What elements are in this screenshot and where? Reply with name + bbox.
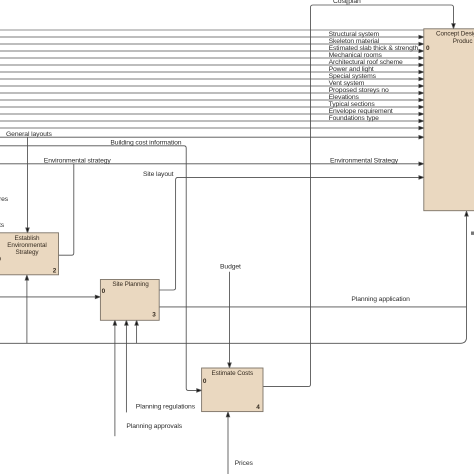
wire Site layout (output of Site Planning, into Concept Design) (159, 177, 419, 290)
svg-text:Cost plan: Cost plan (333, 0, 361, 5)
box: Site Planning (100, 280, 159, 321)
wire Environmental strategy (0, 163, 419, 165)
wire branch into Establish Environmental Strategy bottom (26, 279, 28, 343)
svg-text:2: 2 (53, 268, 57, 275)
svg-text:Power and light: Power and light (329, 66, 374, 73)
svg-text:Building cost information: Building cost information (110, 140, 181, 147)
wire General layouts (0, 136, 419, 138)
wire input line 2 y=37.0 (0, 36, 419, 38)
box: Concept Design Production (clipped at right edge) (424, 29, 474, 211)
wire Building cost information (into Estimate Costs left) (0, 146, 197, 391)
svg-text:Concept Desig: Concept Desig (436, 31, 474, 38)
wire input line 1 y=30.0 (0, 29, 424, 31)
wire Planning regulations (into Site Planning bottom) (125, 324, 127, 413)
svg-text:Elevations: Elevations (329, 94, 360, 101)
svg-text:Budget: Budget (220, 264, 241, 271)
wire input line 12 y=107.0 (0, 106, 419, 108)
label: cut fragment at right edge (471, 232, 474, 235)
svg-text:Estimate Costs: Estimate Costs (212, 370, 254, 377)
svg-text:res: res (0, 196, 9, 203)
svg-text:Architectural roof scheme: Architectural roof scheme (329, 59, 403, 66)
wire planning loop: vertical into Concept Design bottom, long horizontal return (0, 216, 467, 344)
wire Prices (into Estimate Costs bottom) (227, 415, 229, 474)
svg-text:0: 0 (102, 288, 106, 295)
wire Budget (into Estimate Costs top) (229, 272, 231, 364)
svg-text:Environmental Strategy: Environmental Strategy (330, 158, 399, 165)
wire input line 14 y=121.0 (0, 120, 419, 122)
svg-text:Special systems: Special systems (329, 73, 377, 80)
svg-text:General layouts: General layouts (6, 131, 53, 138)
wire input into Site Planning left edge (0, 296, 96, 298)
wire Estimate Costs output feedback to Concept Design top (263, 5, 454, 387)
svg-text:Site Planning: Site Planning (112, 281, 149, 288)
svg-text:Vent system: Vent system (329, 80, 365, 87)
box: Establish Environmental Strategy (clipped at left edge) (0, 233, 59, 275)
wire input line 8 y=79.0 (0, 78, 419, 80)
svg-text:Proposed storeys no: Proposed storeys no (329, 87, 389, 94)
svg-text:Establish: Establish (14, 235, 40, 242)
svg-text:ts: ts (0, 222, 5, 229)
wire input line 15 y=128.0 (0, 127, 419, 129)
svg-text:Site layout: Site layout (143, 171, 174, 178)
svg-text:Skeleton material: Skeleton material (329, 38, 380, 45)
wire input line 3 y=44.0 (0, 43, 419, 45)
svg-text:Envelope requirement: Envelope requirement (329, 108, 393, 115)
svg-text:Foundations type: Foundations type (329, 115, 380, 122)
wire input line 9 y=86.0 (0, 85, 419, 87)
svg-text:0: 0 (203, 378, 207, 385)
svg-text:0: 0 (426, 45, 430, 52)
wire General layouts branch down into Establish top (27, 137, 29, 228)
wire input line 7 y=72.0 (0, 71, 419, 73)
wire stub at top edge (346, 0, 348, 5)
wire Environmental strategy branch from Establish box output (59, 164, 74, 255)
svg-text:Planning regulations: Planning regulations (136, 404, 196, 411)
wire input line 13 y=114.0 (0, 113, 419, 115)
wire Planning approvals (into Site Planning bottom) (114, 324, 116, 437)
svg-text:Structural system: Structural system (329, 31, 380, 38)
wire input line 6 y=65.0 (0, 64, 419, 66)
svg-text:Produc: Produc (453, 38, 473, 45)
wire Planning application (159, 306, 466, 308)
svg-text:Strategy: Strategy (16, 249, 40, 256)
svg-text:Planning approvals: Planning approvals (126, 423, 182, 430)
svg-text:4: 4 (256, 404, 260, 411)
svg-text:Environmental: Environmental (7, 242, 47, 249)
wire input line 10 y=93.0 (0, 92, 419, 94)
svg-text:Planning application: Planning application (351, 296, 410, 303)
svg-text:Environmental strategy: Environmental strategy (44, 158, 112, 165)
wire input line 4 y=51.0 (0, 50, 419, 52)
wire input line 5 y=58.0 (0, 57, 419, 59)
svg-text:Typical sections: Typical sections (329, 101, 376, 108)
svg-text:Estimated slab thick & strengt: Estimated slab thick & strength (329, 45, 419, 52)
wire input line 11 y=100.0 (0, 99, 419, 101)
svg-text:Mechanical rooms: Mechanical rooms (329, 52, 383, 59)
box: Estimate Costs (202, 368, 263, 412)
svg-text:Prices: Prices (235, 460, 254, 467)
wire branch into Site Planning bottom (136, 324, 138, 344)
svg-text:3: 3 (152, 311, 156, 318)
